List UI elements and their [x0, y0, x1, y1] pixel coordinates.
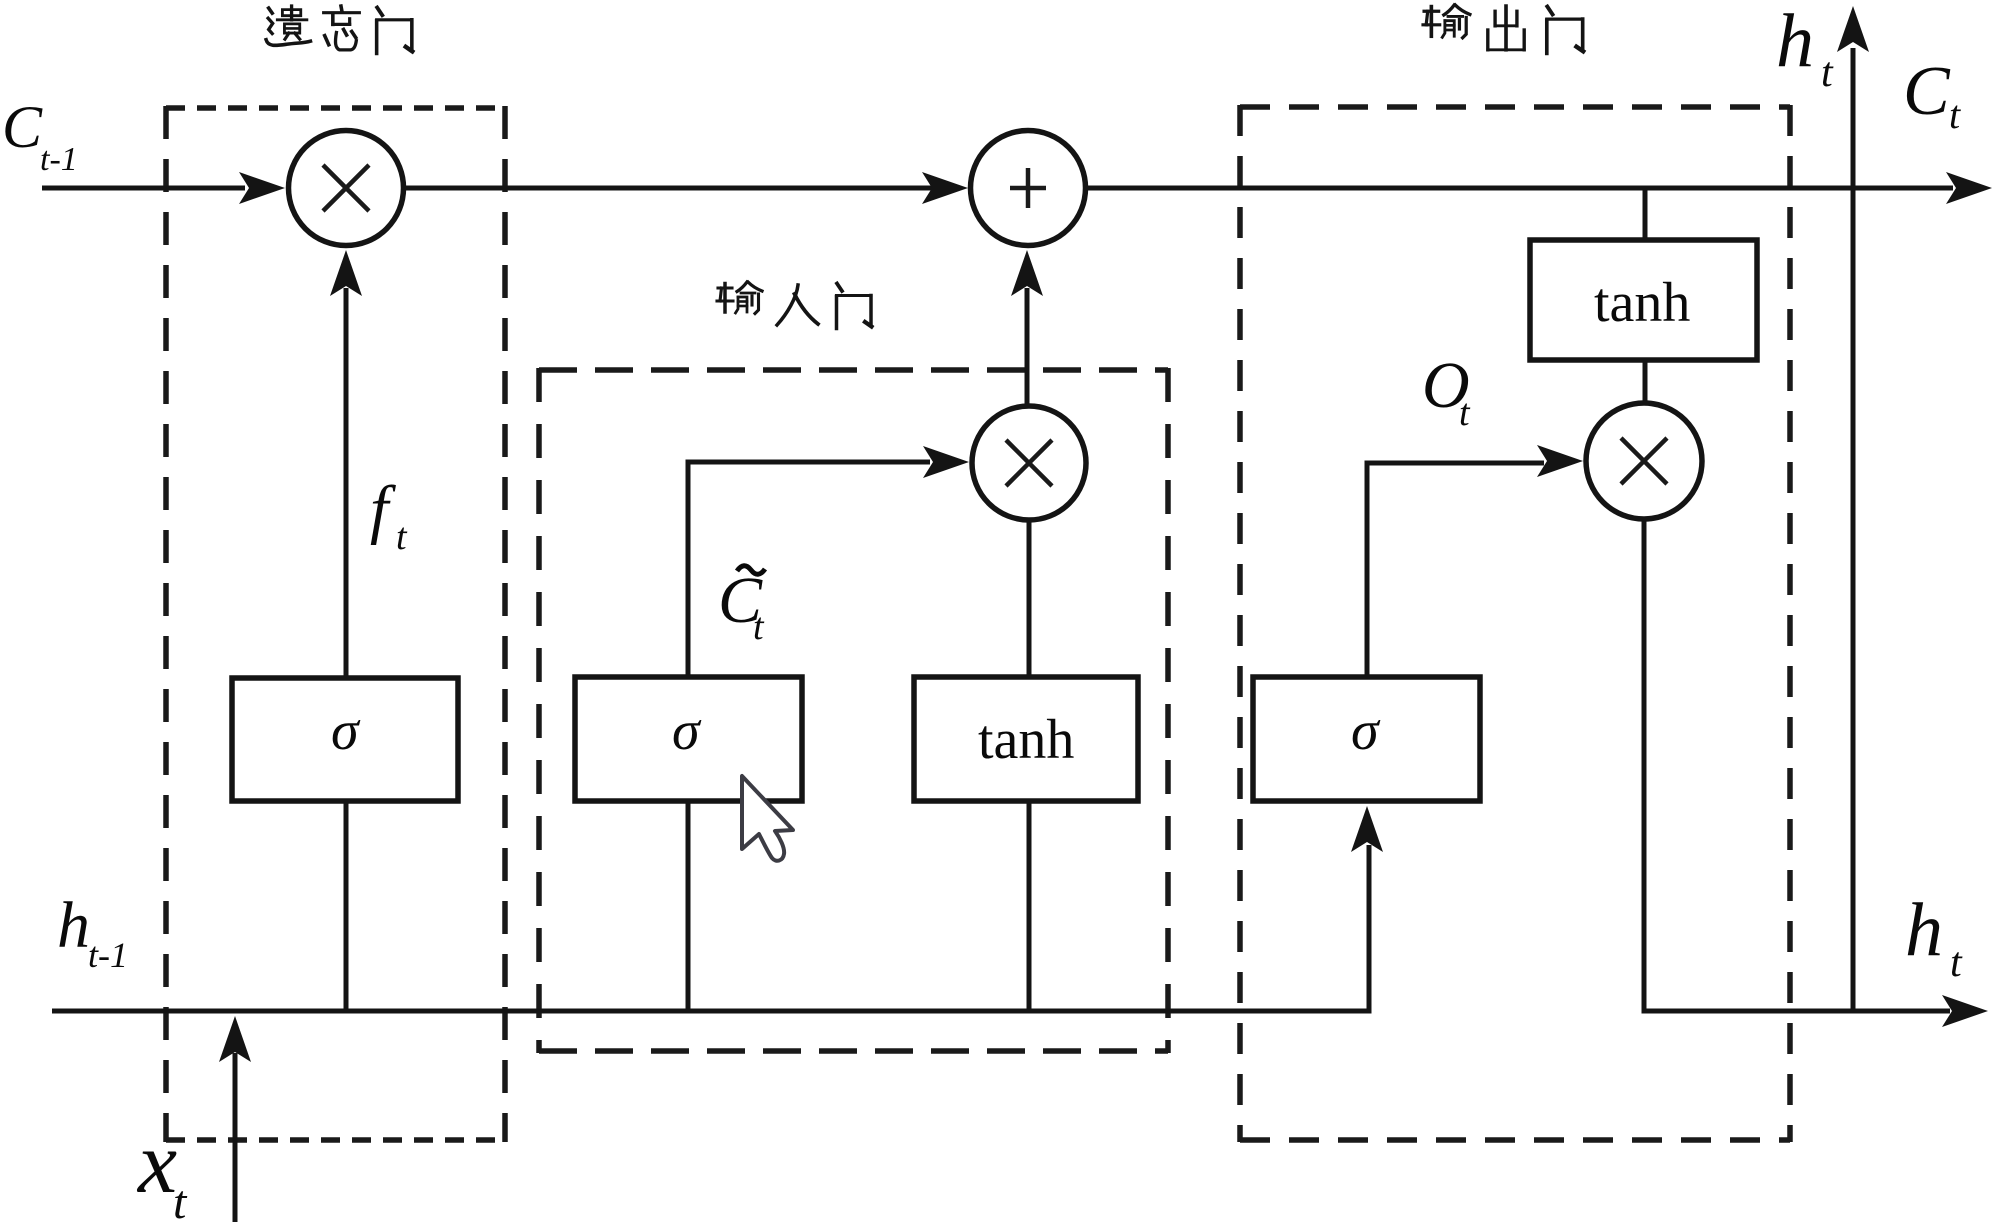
wire h_t out [1644, 519, 1950, 1011]
forget gate dashed box [166, 106, 505, 1142]
wire tanh_o top connector [1643, 188, 1648, 240]
wire input-x to plus [1025, 288, 1030, 406]
sigma box output [1253, 677, 1480, 801]
svg-text:t: t [396, 516, 408, 558]
wire sigma_f down [344, 801, 349, 1011]
wire tanh_i down [1027, 801, 1032, 1011]
sigma box input [575, 677, 802, 801]
label h_t right [1905, 888, 1963, 986]
output gate dashed box [1240, 105, 1790, 1142]
tanh box output [1530, 240, 1757, 360]
label C_t-1 [2, 94, 78, 178]
svg-text:t: t [1459, 392, 1471, 434]
svg-text:tanh: tanh [1594, 272, 1690, 334]
svg-text:h: h [1905, 888, 1943, 972]
wire h line [52, 845, 1369, 1011]
svg-text:C: C [2, 94, 43, 160]
svg-text:tanh: tanh [978, 709, 1074, 771]
label f_t [370, 473, 408, 558]
label input gate 输入门 [717, 282, 872, 329]
svg-text:C: C [1903, 53, 1951, 130]
label O_t [1422, 349, 1471, 434]
cursor [742, 776, 793, 861]
svg-text:t: t [1821, 50, 1834, 96]
wire O_t corner [1367, 463, 1544, 678]
svg-text:t: t [753, 606, 765, 648]
wire sigma_i down [686, 801, 691, 1011]
svg-text:t-1: t-1 [88, 935, 128, 975]
svg-text:σ: σ [331, 700, 361, 762]
svg-text:σ: σ [1351, 700, 1381, 762]
svg-text:x: x [136, 1115, 177, 1212]
label forget gate 遗忘门 [266, 6, 412, 53]
label h_t-1 [57, 889, 128, 975]
svg-text:h: h [57, 889, 90, 962]
arrow f_t up [330, 250, 362, 296]
wire x_t vertical [233, 1053, 238, 1222]
svg-text:σ: σ [672, 700, 702, 762]
plus circle [971, 131, 1086, 246]
wire tanh_o to x circle [1643, 360, 1648, 404]
arrow into forget x [239, 172, 285, 204]
arrow h_t axis top [1837, 6, 1869, 52]
arrow h_t out right [1942, 995, 1988, 1027]
arrow sigma_o up [1351, 806, 1383, 852]
tanh box input [914, 677, 1138, 801]
label output gate 输出门 [1423, 5, 1583, 53]
label C~_t [718, 564, 765, 648]
svg-text:t: t [1949, 92, 1961, 137]
svg-text:t-1: t-1 [40, 141, 78, 178]
wire input-x to tanh [1027, 520, 1032, 678]
arrow x_t up [219, 1016, 251, 1062]
label C_t topright [1903, 53, 1961, 137]
multiply circle forget [289, 131, 404, 246]
multiply circle input [972, 406, 1086, 520]
multiply circle output [1586, 403, 1702, 519]
label x_t [136, 1115, 188, 1222]
svg-text:t: t [1950, 940, 1963, 986]
svg-text:h: h [1776, 0, 1814, 83]
wire f_t vertical [344, 288, 349, 678]
wire C~ corner [688, 462, 930, 678]
arrow into input x [923, 446, 969, 478]
sigma box forget [232, 678, 458, 801]
wire h_t axis [1851, 48, 1856, 1011]
arrowheads [219, 6, 1992, 1062]
arrow into plus [922, 172, 968, 204]
arrow into output x [1537, 445, 1583, 477]
label h_t top [1776, 0, 1834, 96]
arrow C_t right end [1946, 172, 1992, 204]
arrow plus up [1011, 250, 1043, 296]
input gate dashed box [539, 368, 1168, 1053]
svg-text:t: t [173, 1176, 188, 1222]
